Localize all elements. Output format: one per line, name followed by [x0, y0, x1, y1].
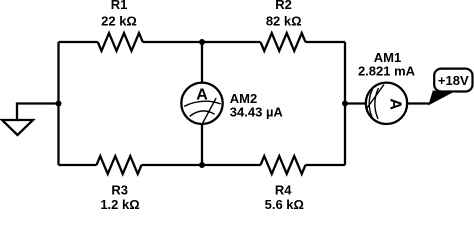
svg-text:+18V: +18V: [438, 73, 469, 88]
wire top segment middle: [143, 41, 261, 43]
svg-text:R2: R2: [275, 0, 292, 12]
wire bottom segment middle: [142, 164, 261, 166]
svg-text:2.821 mA: 2.821 mA: [358, 64, 416, 79]
wire AM1 right stub: [407, 102, 430, 104]
resistor R1: [98, 0, 143, 51]
wire right vertical: [344, 42, 346, 165]
svg-text:R4: R4: [275, 183, 292, 198]
node junction right: [342, 101, 348, 107]
svg-text:34.43 µA: 34.43 µA: [230, 104, 284, 119]
svg-text:1.2 kΩ: 1.2 kΩ: [100, 197, 139, 210]
svg-text:22 kΩ: 22 kΩ: [101, 13, 137, 28]
resistor R4: [261, 156, 306, 212]
svg-text:R3: R3: [111, 183, 128, 198]
resistor R2: [261, 0, 306, 51]
svg-text:82 kΩ: 82 kΩ: [266, 13, 302, 28]
ammeter AM1: [358, 50, 416, 124]
ammeter AM2: [181, 83, 283, 124]
wire bottom segment right: [306, 164, 346, 166]
node junction top: [199, 39, 205, 45]
svg-text:R1: R1: [111, 0, 128, 12]
node junction ground: [56, 101, 62, 107]
wire AM2 top stub: [201, 42, 203, 83]
resistor R3: [97, 156, 142, 212]
wire bottom segment left: [59, 164, 97, 166]
ground: [2, 104, 59, 136]
wire left vertical: [57, 42, 59, 165]
node junction bottom: [199, 162, 205, 168]
svg-text:5.6 kΩ: 5.6 kΩ: [265, 197, 304, 210]
svg-text:A: A: [387, 98, 404, 110]
wire AM2 bottom stub: [201, 124, 203, 165]
node +18V flag: [429, 69, 473, 105]
wire top segment left: [59, 41, 98, 43]
wire top segment right: [306, 41, 346, 43]
wire AM1 left stub: [345, 102, 366, 104]
